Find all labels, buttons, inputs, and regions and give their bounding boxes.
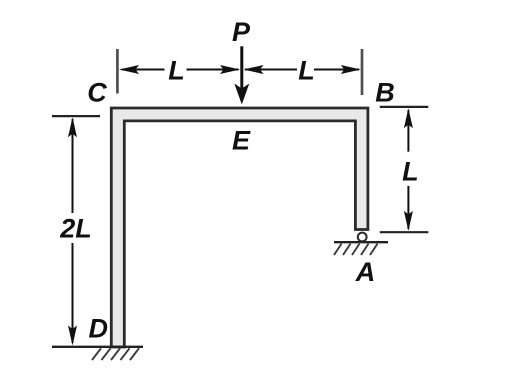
svg-text:L: L <box>298 56 315 86</box>
label B <box>375 77 395 107</box>
frame members CB, CD, BA (gray band) <box>111 108 368 347</box>
left dimension line 2L with arrows <box>68 117 77 345</box>
force P arrow <box>234 46 249 104</box>
svg-text:2L: 2L <box>59 213 92 243</box>
tick at C level (left dim) <box>52 115 100 117</box>
hatching at A <box>334 244 378 255</box>
label P <box>232 17 251 47</box>
svg-text:E: E <box>232 125 251 155</box>
dimension tick left (top dim) <box>116 49 119 94</box>
svg-text:D: D <box>88 313 108 343</box>
label E <box>232 125 251 155</box>
label L (right side) <box>402 157 419 187</box>
dimension tick right (top dim) <box>361 49 364 95</box>
label 2L <box>59 213 92 243</box>
svg-text:L: L <box>402 157 419 187</box>
ground line at A <box>334 241 388 243</box>
svg-text:B: B <box>375 77 395 107</box>
ground line at D <box>52 346 143 348</box>
pin circle at A <box>358 233 367 242</box>
top dimension line right half with arrows <box>244 65 361 74</box>
tick at A level <box>380 231 429 233</box>
svg-text:P: P <box>232 17 251 47</box>
svg-text:A: A <box>355 257 376 287</box>
tick at B level <box>380 106 429 108</box>
right dimension line L with arrows <box>404 108 413 231</box>
hatching at D <box>92 348 139 360</box>
label L (top left) <box>168 56 185 86</box>
label A <box>355 257 376 287</box>
label C <box>87 78 107 108</box>
svg-text:C: C <box>87 78 107 108</box>
label L (top right) <box>298 56 315 86</box>
svg-text:L: L <box>168 56 185 86</box>
label D <box>88 313 108 343</box>
top dimension line left half with arrows <box>119 65 240 74</box>
